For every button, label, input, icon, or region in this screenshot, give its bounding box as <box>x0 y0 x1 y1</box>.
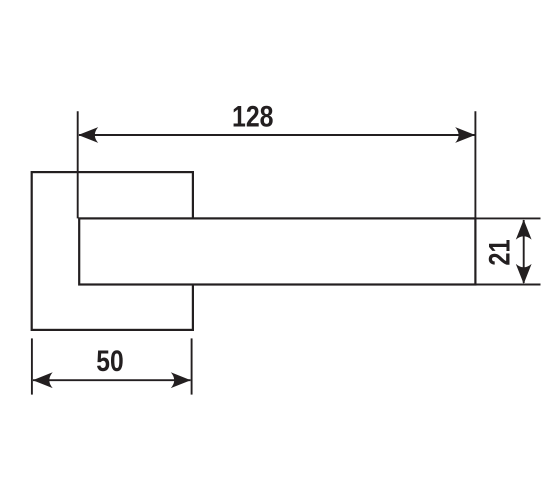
svg-text:50: 50 <box>96 345 123 378</box>
lever handle bar (drawn over plate, hides plate edge) <box>79 218 475 284</box>
svg-text:128: 128 <box>232 101 274 134</box>
arrow right of dim 128 <box>455 127 475 143</box>
arrow up of dim 21 <box>516 220 532 240</box>
extension line right (lever end, x=475.4) <box>474 111 476 218</box>
arrow right of dim 50 <box>171 372 191 388</box>
extension line bottom-left (plate left, x=31.9) <box>31 338 33 394</box>
rose plate (50x50 square escutcheon outline) <box>32 172 193 330</box>
arrow left of dim 50 <box>33 372 53 388</box>
arrow down of dim 21 <box>516 264 532 284</box>
dimension line 21 <box>523 220 525 283</box>
extension line top (lever top edge extended right) <box>475 217 540 219</box>
dimension line 50 <box>33 379 191 381</box>
arrow left of dim 128 <box>78 127 98 143</box>
dimension line 128 <box>79 134 475 136</box>
extension line bottom-right (plate right, x=191.6) <box>191 338 193 394</box>
extension line left (lever start, x=77.7) <box>77 111 79 218</box>
extension line bottom (lever bottom edge extended right) <box>475 284 540 286</box>
svg-text:21: 21 <box>484 239 517 265</box>
